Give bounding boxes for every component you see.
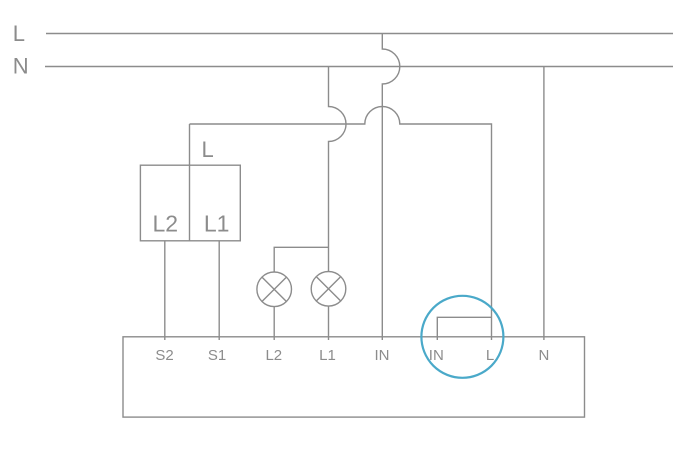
- wire switch S1 output: [218, 241, 220, 340]
- lamp L1: [311, 272, 346, 307]
- wire lamp L1 to terminal L1: [328, 306, 330, 340]
- wire N bus: [45, 66, 673, 68]
- wire N feed to lamps (hops over switch wire): [329, 67, 347, 272]
- svg-text:L: L: [486, 347, 494, 364]
- wire L bus: [46, 33, 673, 35]
- wire jumper IN to L: [437, 317, 491, 340]
- wire L feed drop to terminal IN1 (hops over N bus): [382, 34, 400, 341]
- svg-text:L: L: [202, 137, 214, 162]
- svg-text:L1: L1: [319, 347, 336, 364]
- svg-text:S2: S2: [155, 347, 173, 364]
- svg-text:L1: L1: [204, 211, 230, 237]
- switch box: [140, 165, 240, 241]
- svg-text:S1: S1: [208, 347, 226, 364]
- wire lamp L2 to terminal L2: [273, 307, 275, 340]
- lamp L2: [257, 272, 292, 307]
- wire branch to lamp L2: [274, 247, 328, 272]
- svg-text:N: N: [538, 347, 549, 364]
- wire switch S2 output: [164, 241, 166, 340]
- svg-text:L: L: [13, 21, 25, 46]
- svg-text:N: N: [13, 54, 29, 79]
- wire N drop to terminal N: [543, 67, 545, 341]
- wire switch feed / divider: [189, 124, 191, 241]
- highlight circle around IN-L jumper: [421, 296, 503, 378]
- svg-text:L2: L2: [265, 347, 282, 364]
- svg-text:IN: IN: [375, 347, 390, 364]
- relay module box: [123, 337, 585, 417]
- svg-text:L2: L2: [153, 211, 179, 237]
- wire switch L to terminal L (hops over L feed drop): [190, 107, 492, 341]
- svg-text:IN: IN: [429, 347, 444, 364]
